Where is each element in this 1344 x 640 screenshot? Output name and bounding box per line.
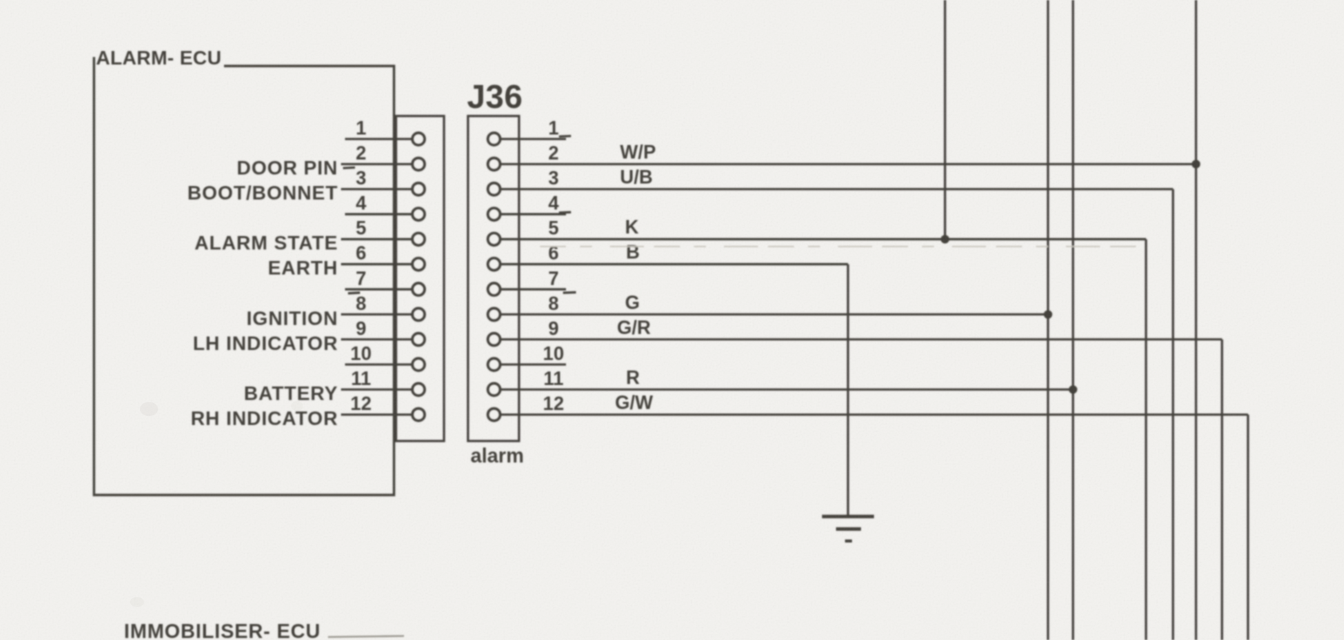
wire G/R (J36 pin 9): [500, 318, 1222, 640]
label J36: [467, 78, 523, 115]
wire vertical bus B (through R junction): [1069, 0, 1078, 640]
wire U/B (J36 pin 3): [500, 168, 1173, 640]
label ALARM- ECU: [96, 48, 221, 70]
ECU pin 2 stub, number and contact: [341, 144, 425, 171]
ECU pin 6 stub, number and contact: [341, 244, 425, 271]
ECU pin 3 label BOOT/BONNET: [187, 183, 338, 205]
stub dash (J36 row 1): [559, 135, 571, 138]
connector shell (ECU side): [396, 116, 444, 441]
stub dash (J36 row 7): [563, 291, 576, 294]
J36 pin 7 contact and number: [488, 269, 566, 296]
wire vertical bus A (through G junction): [1044, 0, 1053, 640]
ECU pin 6 label EARTH: [268, 258, 338, 280]
J36 pin 1 contact and number: [488, 119, 566, 146]
J36 pin 2 contact and number: [488, 144, 559, 171]
wire G (J36 pin 8): [500, 293, 1048, 315]
ECU pin 5 stub, number and contact: [341, 219, 425, 246]
J36 pin 8 contact and number: [488, 294, 559, 321]
ECU pin 2 label DOOR PIN: [237, 158, 338, 180]
ECU pin 11 label BATTERY: [244, 383, 338, 405]
paper smudge: [130, 401, 303, 607]
J36 pin 3 contact and number: [488, 169, 559, 196]
wire R (J36 pin 11): [500, 368, 1073, 390]
wire K (J36 pin 5): [500, 218, 1146, 640]
ECU pin 8 label IGNITION: [247, 308, 338, 330]
ECU pin 10 stub, number and contact: [345, 344, 425, 371]
label IMMOBILISER- ECU: [124, 621, 321, 640]
leader dash (ECU row 7): [348, 292, 360, 295]
wire W/P (J36 pin 2): [500, 143, 1196, 165]
ECU pin 5 label ALARM STATE: [195, 233, 338, 255]
ECU pin 12 label RH INDICATOR: [191, 408, 338, 430]
connector J36 shell: [468, 116, 519, 441]
wire B (J36 pin 6): [500, 243, 848, 265]
label alarm: [471, 446, 524, 468]
ECU pin 4 stub, number and contact: [345, 194, 425, 221]
stub dash (J36 row 4): [559, 211, 571, 214]
ECU pin 9 stub, number and contact: [341, 319, 425, 346]
J36 pin 5 contact and number: [488, 219, 559, 246]
J36 pin 10 contact and number: [488, 344, 566, 371]
wire vertical bus C (through W/P junction): [1192, 0, 1201, 640]
scan ghost line (decorative): [540, 246, 1143, 248]
ECU pin 11 stub, number and contact: [341, 369, 425, 396]
ECU pin 9 label LH INDICATOR: [193, 333, 338, 355]
ECU pin 1 stub, number and contact: [345, 119, 425, 146]
wire vertical (to K junction): [941, 0, 950, 244]
J36 pin 9 contact and number: [488, 319, 559, 346]
wire B to ground: [847, 264, 849, 516]
IMMOBILISER box top edge (faint): [328, 636, 404, 637]
J36 pin 4 contact and number: [488, 194, 566, 221]
ECU box ALARM-ECU: [94, 57, 394, 495]
J36 pin 12 contact and number: [488, 394, 564, 421]
wire G/W (J36 pin 12): [500, 393, 1248, 640]
ECU pin 7 stub, number and contact: [345, 269, 425, 296]
ECU pin 12 stub, number and contact: [341, 394, 425, 421]
J36 pin 11 contact and number: [488, 369, 564, 396]
ECU pin 3 stub, number and contact: [341, 169, 425, 196]
ground: [822, 517, 874, 542]
leader dash (ECU row 2): [343, 166, 355, 169]
J36 pin 6 contact and number: [488, 244, 559, 271]
ECU pin 8 stub, number and contact: [341, 294, 425, 321]
